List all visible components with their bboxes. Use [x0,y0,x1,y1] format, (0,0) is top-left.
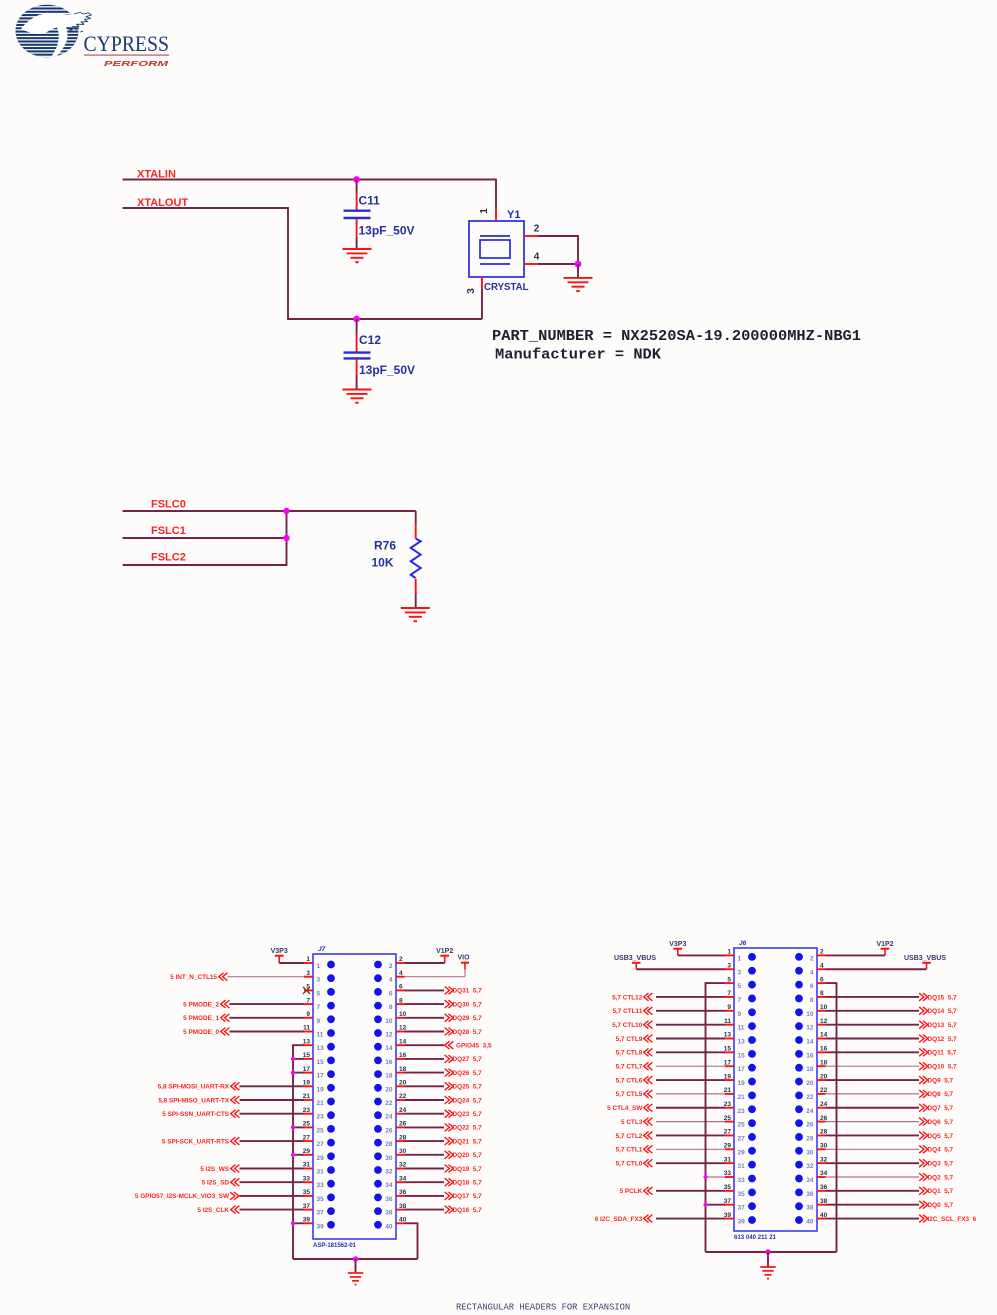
J6 pin 1 [725,949,756,963]
wire I2C_SCL_FX3 to J6 pin 40 [826,1218,920,1220]
wire DQ6 to J6 pin 26 [826,1121,920,1123]
svg-text:13: 13 [317,1045,325,1052]
net label 5,7 CTL12 [612,993,652,1001]
J6 pin 37 [724,1198,756,1212]
ground below J6 [760,1267,776,1279]
J6 pin 2 [795,949,825,963]
J7 pin 37 [303,1203,335,1217]
svg-text:5 CTL4_SW: 5 CTL4_SW [607,1105,643,1112]
wire DQ1 to J6 pin 36 [826,1190,920,1192]
J7 pin 34 [374,1175,407,1189]
svg-text:DQ24 5,7: DQ24 5,7 [453,1097,483,1104]
J6 pin 9 [725,1004,756,1018]
ground below J7 [348,1273,364,1285]
J6 pin 28 [795,1129,828,1143]
J7 pin 39 [303,1217,335,1231]
net label DQ19&#160;&#160;5,7 [445,1165,482,1173]
svg-text:23: 23 [317,1114,325,1121]
svg-text:5: 5 [738,983,742,990]
J6 pin 25 [724,1115,756,1129]
svg-text:DQ3 5,7: DQ3 5,7 [928,1160,954,1167]
wire DQ16 to J7 pin 38 [405,1209,445,1211]
wire rail to J7 ground [355,1259,357,1272]
svg-text:8: 8 [389,1004,393,1011]
J6 pin 24 [795,1101,828,1115]
svg-text:DQ23 5,7: DQ23 5,7 [453,1111,483,1118]
J7 pin 29 [303,1148,335,1162]
svg-text:32: 32 [806,1163,814,1170]
wire DQ26 to J7 pin 18 [405,1072,445,1074]
J7 pin 11 [303,1025,335,1039]
net label 5 SPI-SSN_UART-CTS [162,1110,239,1118]
svg-text:V1P2: V1P2 [436,948,453,955]
svg-text:38: 38 [385,1210,393,1217]
J7 pin 40 [374,1217,407,1231]
Cypress wordmark [84,31,170,56]
net label DQ11&#160;&#160;5,7 [919,1048,957,1056]
svg-text:FSLC2: FSLC2 [151,552,186,564]
net label DQ25&#160;&#160;5,7 [445,1082,482,1090]
node J6 bus junction pin 37 [703,1203,707,1207]
J6 pin 3 [725,962,756,976]
capacitor C11 [344,180,371,249]
net label DQ5&#160;&#160;5,7 [919,1132,953,1140]
J7 pin 23 [303,1107,335,1121]
wire 5,7 CTL5 to J6 pin 21 [656,1093,725,1095]
svg-text:RECTANGULAR HEADERS FOR EXPANS: RECTANGULAR HEADERS FOR EXPANSION [456,1303,630,1313]
svg-text:3: 3 [317,977,321,984]
svg-text:5,7 CTL10: 5,7 CTL10 [612,1022,643,1029]
svg-text:DQ25 5,7: DQ25 5,7 [453,1084,483,1091]
wire DQ25 to J7 pin 20 [405,1085,445,1087]
svg-text:25: 25 [317,1127,325,1134]
power symbol USB3_VBUS (left) [614,955,656,969]
Y1 pin 4 stub [524,263,538,265]
J6 pin 22 [795,1087,828,1101]
wire XTALOUT [123,208,483,319]
net label DQ0&#160;&#160;5,7 [919,1201,953,1209]
svg-text:5 PMODE_2: 5 PMODE_2 [183,1001,219,1008]
net label 5 I2S_WS [200,1165,239,1173]
wire DQ17 to J7 pin 36 [405,1195,445,1197]
power symbol V3P3 (J6) [669,941,686,955]
wire DQ7 to J6 pin 24 [826,1107,920,1109]
net label 5 I2S_CLK [197,1206,239,1214]
wire 5 SPI-SCK_UART-RTS to J7 pin 27 [240,1140,305,1142]
svg-text:6: 6 [399,984,403,991]
net label 5,7 CTL7 [616,1062,653,1070]
svg-text:34: 34 [806,1177,814,1184]
wire 5,7 CTL2 to J6 pin 27 [656,1134,725,1136]
J6 pin 32 [795,1156,828,1170]
J7 pin 25 [303,1121,335,1135]
J7 pin 19 [303,1080,335,1094]
svg-text:12: 12 [806,1025,814,1032]
svg-text:DQ30 5,7: DQ30 5,7 [453,1001,483,1008]
wire 6 I2C_SDA_FX3 to J6 pin 39 [656,1218,725,1220]
svg-text:3: 3 [466,288,477,294]
wire 5 PCLK to J6 pin 35 [656,1190,725,1192]
J6 pin 31 [724,1156,756,1170]
wire 5,7 CTL12 to J6 pin 7 [656,996,725,998]
svg-text:11: 11 [724,1018,731,1025]
net label 5 I2S_SD [202,1178,240,1186]
svg-text:CYPRESS: CYPRESS [84,31,170,56]
J6 pin 20 [795,1073,828,1087]
J7 pin 17 bus tie [293,1072,304,1074]
J6 pin 13 [724,1032,756,1046]
node J7 bus junction pin 39 [291,1221,295,1225]
svg-text:21: 21 [317,1100,325,1107]
svg-text:24: 24 [806,1108,814,1115]
net label DQ7&#160;&#160;5,7 [919,1104,953,1112]
wire FSLC1 [123,537,287,539]
svg-text:28: 28 [806,1135,814,1142]
svg-text:2: 2 [389,963,393,970]
Y1 pin 1 stub [495,209,497,221]
J7 pin 21 [303,1093,335,1107]
svg-text:5 PCLK: 5 PCLK [620,1188,643,1195]
power symbol V1P2 (J7) [436,948,453,963]
svg-text:5 SPI-SCK_UART-RTS: 5 SPI-SCK_UART-RTS [162,1138,230,1145]
ground below C11 [343,249,372,262]
wire 5,8 SPI-MISO_UART-TX to J7 pin 21 [240,1099,305,1101]
svg-text:22: 22 [806,1094,814,1101]
wire DQ20 to J7 pin 30 [405,1154,445,1156]
J6 pin 23 [724,1101,756,1115]
svg-text:33: 33 [317,1182,325,1189]
svg-text:5 I2S_WS: 5 I2S_WS [200,1166,230,1173]
svg-text:21: 21 [738,1094,746,1101]
svg-text:DQ6 5,7: DQ6 5,7 [928,1119,954,1126]
svg-text:5,7 CTL12: 5,7 CTL12 [612,994,643,1001]
svg-text:31: 31 [317,1169,325,1176]
svg-text:10: 10 [806,1011,814,1018]
svg-text:17: 17 [724,1059,732,1066]
svg-text:9: 9 [306,1011,310,1018]
svg-text:613 040 211 21: 613 040 211 21 [734,1234,776,1241]
svg-text:DQ15 5,7: DQ15 5,7 [928,994,958,1001]
wire DQ27 to J7 pin 16 [405,1058,445,1060]
svg-text:4: 4 [534,252,540,263]
svg-text:13pF_50V: 13pF_50V [359,363,415,377]
power symbol VIO [457,955,470,970]
svg-text:5,8 SPI-MISO_UART-TX: 5,8 SPI-MISO_UART-TX [158,1097,229,1104]
svg-text:25: 25 [738,1122,746,1129]
J6 pin 15 [724,1046,756,1060]
svg-text:DQ14 5,7: DQ14 5,7 [928,1008,958,1015]
wire 5 CTL3 to J6 pin 25 [656,1121,725,1123]
J6 pin 33 bus tie [706,1176,726,1178]
svg-text:9: 9 [738,1011,742,1018]
wire FSLC2 [123,510,287,565]
wire Y1 pin 3 down [481,289,483,319]
svg-text:3: 3 [727,962,731,969]
J6 pin 36 [795,1184,828,1198]
svg-text:5,8 SPI-MOSI_UART-RX: 5,8 SPI-MOSI_UART-RX [158,1084,230,1091]
J6 ground bus (right) [826,983,837,1252]
svg-text:Y1: Y1 [507,209,520,221]
Y1 pin 3 stub [481,277,483,289]
wire GPIO45 to J7 pin 14 [405,1044,445,1046]
wire rail to J6 ground [767,1252,769,1266]
J7 pin 26 [374,1121,407,1135]
node J6 rail junction [765,1249,770,1254]
svg-text:5 SPI-SSN_UART-CTS: 5 SPI-SSN_UART-CTS [162,1111,229,1118]
node J7 bus junction pin 15 [291,1057,295,1061]
svg-text:5,7 CTL6: 5,7 CTL6 [616,1077,643,1084]
svg-text:16: 16 [806,1052,814,1059]
svg-text:5 GPIO57_I2S-MCLK_VIO3_SW: 5 GPIO57_I2S-MCLK_VIO3_SW [135,1193,230,1200]
svg-text:3: 3 [738,969,742,976]
wire 5,7 CTL10 to J6 pin 11 [656,1024,725,1026]
net label DQ9&#160;&#160;5,7 [919,1076,953,1084]
svg-text:5 INT_N_CTL15: 5 INT_N_CTL15 [170,974,217,981]
svg-text:39: 39 [738,1219,746,1226]
svg-text:14: 14 [385,1045,393,1052]
wire DQ30 to J7 pin 8 [405,1003,445,1005]
svg-text:26: 26 [385,1127,393,1134]
svg-text:5 PMODE_1: 5 PMODE_1 [183,1015,219,1022]
wire DQ19 to J7 pin 32 [405,1168,445,1170]
svg-text:15: 15 [738,1052,746,1059]
net label 5,7 CTL8 [616,1048,653,1056]
svg-text:C11: C11 [359,194,381,208]
svg-text:DQ21 5,7: DQ21 5,7 [453,1138,483,1145]
svg-text:DQ19 5,7: DQ19 5,7 [453,1166,483,1173]
net label DQ23&#160;&#160;5,7 [445,1110,482,1118]
wire 5,8 SPI-MOSI_UART-RX to J7 pin 19 [240,1085,305,1087]
svg-text:DQ4 5,7: DQ4 5,7 [928,1147,954,1154]
net label 5 PCLK [620,1187,653,1195]
red rule under wordmark [84,54,169,55]
svg-text:15: 15 [317,1059,325,1066]
wire DQ29 to J7 pin 10 [405,1017,445,1019]
wire VIO to J7 pin 4 [464,969,466,977]
J7 pin 22 [374,1093,407,1107]
svg-text:7: 7 [306,997,310,1004]
svg-text:I2C_SCL_FX3 6: I2C_SCL_FX3 6 [928,1216,977,1223]
wire 5 PMODE_2 to J7 pin 7 [230,1003,305,1005]
svg-text:19: 19 [738,1080,746,1087]
node Y1 pins 2/4 junction [575,261,582,268]
svg-text:6: 6 [820,976,824,983]
wire DQ10 to J6 pin 18 [826,1065,920,1067]
J7 pin 1 [304,956,335,970]
J7 pin 27 [303,1134,335,1148]
svg-text:ASP-181562-01: ASP-181562-01 [313,1242,356,1249]
svg-text:USB3_VBUS: USB3_VBUS [614,955,656,962]
J7 pin 28 [374,1134,407,1148]
ground below C12 [343,390,372,403]
svg-text:V3P3: V3P3 [271,948,288,955]
svg-text:8: 8 [399,997,403,1004]
wire USB3_VBUS to J6 pin 3 [636,968,725,970]
svg-text:34: 34 [385,1182,393,1189]
wire 5 SPI-SSN_UART-CTS to J7 pin 23 [240,1113,305,1115]
svg-text:37: 37 [317,1210,325,1217]
svg-text:25: 25 [724,1115,732,1122]
ground below Y1 [564,278,593,291]
J7 pin 33 [303,1175,335,1189]
svg-text:5 CTL3: 5 CTL3 [621,1119,643,1126]
svg-text:V1P2: V1P2 [876,941,893,948]
Cypress logo globe [10,4,92,60]
net label 5 INT_N_CTL15 [170,973,227,981]
svg-text:DQ13 5,7: DQ13 5,7 [928,1022,958,1029]
svg-text:7: 7 [738,997,742,1004]
J7 pin 32 [374,1162,407,1176]
J6 pin 37 bus tie [706,1204,726,1206]
net label 5 CTL3 [621,1118,652,1126]
wire 5,7 CTL8 to J6 pin 15 [656,1051,725,1053]
wire DQ14 to J6 pin 10 [826,1010,920,1012]
svg-text:39: 39 [317,1223,325,1230]
wire DQ4 to J6 pin 30 [826,1148,920,1150]
net label DQ27&#160;&#160;5,7 [445,1055,482,1063]
wire DQ11 to J6 pin 16 [826,1051,920,1053]
svg-text:5,7 CTL2: 5,7 CTL2 [616,1133,643,1140]
net label 5 GPIO57_I2S-MCLK_VIO3_SW [135,1192,239,1200]
J6 pin 5 [725,976,756,990]
svg-text:DQ18 5,7: DQ18 5,7 [453,1180,483,1187]
net label DQ12&#160;&#160;5,7 [919,1035,957,1043]
J6 ground bus (left) [706,983,726,1252]
wire DQ13 to J6 pin 12 [826,1024,920,1026]
wire DQ3 to J6 pin 32 [826,1162,920,1164]
J6 pin 7 [725,990,756,1004]
svg-text:21: 21 [724,1087,732,1094]
wire 5 PMODE_1 to J7 pin 9 [230,1017,305,1019]
svg-text:23: 23 [738,1108,746,1115]
wire DQ22 to J7 pin 26 [405,1126,445,1128]
J6 pin 14 [795,1032,828,1046]
ground below R76 [401,608,430,621]
svg-text:C12: C12 [359,333,381,347]
net label DQ6&#160;&#160;5,7 [919,1118,953,1126]
wire 5 CTL4_SW to J6 pin 23 [656,1107,725,1109]
wire 5 PMODE_0 to J7 pin 11 [230,1031,305,1033]
svg-text:7: 7 [727,990,731,997]
svg-text:13: 13 [738,1039,746,1046]
svg-text:5,7 CTL1: 5,7 CTL1 [616,1147,643,1154]
J7 pin 16 [374,1052,407,1066]
connector J7 body [313,954,396,1239]
net label DQ17&#160;&#160;5,7 [445,1192,482,1200]
resistor R76 [411,511,421,607]
net label 5,7 CTL0 [616,1159,653,1167]
svg-text:2: 2 [534,224,540,235]
svg-text:DQ10 5,7: DQ10 5,7 [928,1064,958,1071]
svg-text:30: 30 [385,1155,393,1162]
svg-text:32: 32 [385,1169,393,1176]
svg-text:18: 18 [820,1059,828,1066]
svg-text:1: 1 [479,208,490,214]
svg-text:17: 17 [738,1066,746,1073]
wire XTALIN to Y1 pin 1 [495,179,497,209]
net label 5,7 CTL11 [612,1007,652,1015]
J7 pin 14 [374,1038,407,1052]
svg-text:26: 26 [806,1122,814,1129]
J7 pin 2 [374,956,404,970]
J6 pin 21 [724,1087,756,1101]
svg-text:1: 1 [727,949,731,956]
wire V3P3 to J7 pin 1 [279,962,304,964]
svg-text:31: 31 [738,1163,746,1170]
svg-text:FSLC1: FSLC1 [151,525,186,537]
svg-text:22: 22 [385,1100,393,1107]
J7 pin 24 [374,1107,407,1121]
net label DQ26&#160;&#160;5,7 [445,1069,482,1077]
wire DQ5 to J6 pin 28 [826,1134,920,1136]
svg-text:DQ0 5,7: DQ0 5,7 [928,1202,954,1209]
J6 pin 26 [795,1115,828,1129]
net label 5 PMODE_1 [183,1014,229,1022]
J6 ground rail [706,1251,837,1253]
net label DQ20&#160;&#160;5,7 [445,1151,482,1159]
svg-text:J7: J7 [318,946,326,953]
J7 pin 20 [374,1080,407,1094]
wire 5 INT_N_CTL15 to J7 pin 3 [228,976,305,978]
svg-text:9: 9 [317,1018,321,1025]
J6 pin 10 [795,1004,828,1018]
net label 5 PMODE_2 [183,1000,229,1008]
J7 pin 36 [374,1189,407,1203]
connector J6 body [734,948,817,1231]
J7 pin 25 bus tie [293,1126,304,1128]
net label DQ1&#160;&#160;5,7 [919,1187,953,1195]
J6 pin 8 [795,990,825,1004]
svg-text:1: 1 [317,963,321,970]
net label DQ14&#160;&#160;5,7 [919,1007,957,1015]
J6 pin 38 [795,1198,828,1212]
net label DQ24&#160;&#160;5,7 [445,1096,482,1104]
svg-text:30: 30 [806,1149,814,1156]
svg-text:5,7 CTL11: 5,7 CTL11 [612,1008,642,1015]
svg-text:35: 35 [317,1196,325,1203]
J7 pin 15 bus tie [293,1058,304,1060]
svg-text:33: 33 [738,1177,746,1184]
svg-text:DQ12 5,7: DQ12 5,7 [928,1036,958,1043]
J6 pin 34 [795,1170,828,1184]
svg-text:18: 18 [806,1066,814,1073]
svg-text:14: 14 [806,1039,814,1046]
svg-text:V3P3: V3P3 [669,941,686,948]
wire DQ8 to J6 pin 22 [826,1093,920,1095]
wire 5 I2S_SD to J7 pin 33 [240,1181,305,1183]
svg-text:2: 2 [399,956,403,963]
svg-text:20: 20 [385,1086,393,1093]
node J7 bus junction pin 29 [291,1153,295,1157]
net label 5,7 CTL10 [612,1021,652,1029]
net label DQ22&#160;&#160;5,7 [445,1124,482,1132]
net label 5,8 SPI-MOSI_UART-RX [158,1082,240,1090]
wire DQ24 to J7 pin 22 [405,1099,445,1101]
J7 pin 35 [303,1189,335,1203]
J6 pin 33 [724,1170,756,1184]
svg-text:10K: 10K [372,555,394,569]
node FSLC0 junction [283,508,289,514]
J7 pin 3 [304,970,335,984]
svg-text:DQ2 5,7: DQ2 5,7 [928,1174,954,1181]
svg-text:5,7 CTL9: 5,7 CTL9 [616,1036,643,1043]
wire DQ2 to J6 pin 34 [826,1176,920,1178]
svg-text:5,7 CTL7: 5,7 CTL7 [616,1064,643,1071]
svg-text:30: 30 [820,1143,828,1150]
svg-text:VIO: VIO [457,955,470,962]
svg-text:DQ17 5,7: DQ17 5,7 [453,1193,483,1200]
J7 pin 10 [374,1011,407,1025]
